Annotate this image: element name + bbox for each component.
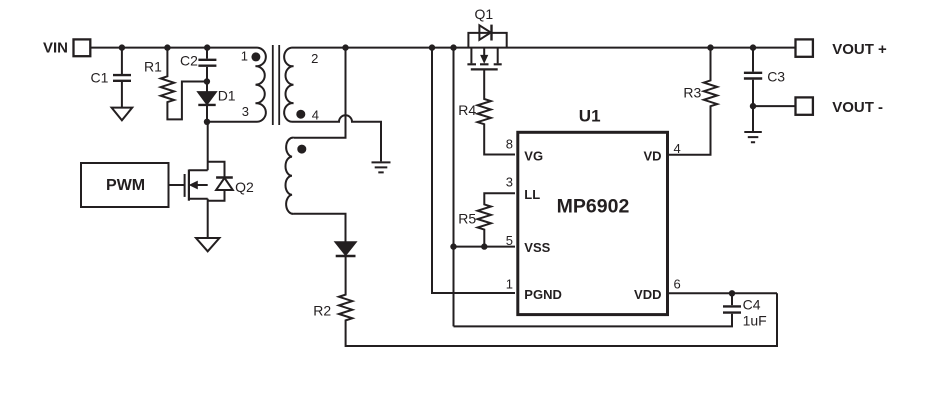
svg-text:D1: D1 bbox=[218, 88, 236, 104]
svg-text:R5: R5 bbox=[458, 211, 476, 227]
svg-text:U1: U1 bbox=[579, 106, 601, 125]
svg-text:R3: R3 bbox=[683, 85, 701, 101]
svg-text:5: 5 bbox=[506, 233, 513, 248]
svg-text:PGND: PGND bbox=[524, 287, 562, 302]
svg-text:VSS: VSS bbox=[524, 240, 550, 255]
svg-text:R1: R1 bbox=[144, 59, 162, 75]
svg-text:C2: C2 bbox=[180, 53, 198, 69]
svg-text:2: 2 bbox=[311, 51, 318, 66]
svg-text:R2: R2 bbox=[313, 302, 331, 318]
svg-text:PWM: PWM bbox=[106, 177, 145, 194]
svg-text:Q2: Q2 bbox=[235, 179, 254, 195]
svg-text:C4: C4 bbox=[743, 296, 761, 312]
svg-text:4: 4 bbox=[312, 108, 319, 123]
svg-text:Q1: Q1 bbox=[475, 6, 494, 22]
svg-text:8: 8 bbox=[506, 136, 513, 151]
svg-text:1uF: 1uF bbox=[743, 312, 767, 328]
svg-text:R4: R4 bbox=[458, 102, 476, 118]
svg-text:C3: C3 bbox=[767, 69, 785, 85]
svg-text:MP6902: MP6902 bbox=[557, 195, 630, 217]
svg-text:VOUT -: VOUT - bbox=[832, 99, 883, 116]
svg-text:1: 1 bbox=[506, 277, 513, 292]
svg-text:6: 6 bbox=[674, 277, 681, 292]
svg-text:VDD: VDD bbox=[634, 287, 661, 302]
svg-text:LL: LL bbox=[524, 187, 540, 202]
svg-text:3: 3 bbox=[506, 175, 513, 190]
svg-text:3: 3 bbox=[242, 104, 249, 119]
svg-text:VG: VG bbox=[524, 148, 543, 163]
svg-text:VOUT +: VOUT + bbox=[832, 41, 887, 58]
svg-text:VIN: VIN bbox=[43, 40, 68, 57]
svg-text:VD: VD bbox=[643, 149, 661, 164]
svg-text:4: 4 bbox=[674, 141, 681, 156]
svg-text:1: 1 bbox=[241, 48, 248, 63]
svg-text:C1: C1 bbox=[91, 69, 109, 85]
